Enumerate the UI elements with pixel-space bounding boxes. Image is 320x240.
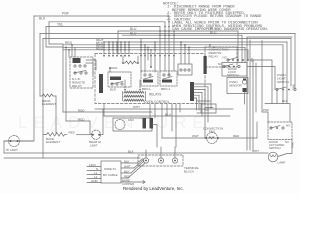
svg-text:PNP: PNP [263,108,269,112]
svg-text:BRO-L: BRO-L [142,87,152,91]
wire ladder from right connector [194,84,211,98]
connector strip left inside oven control [99,74,103,93]
svg-text:PNP: PNP [62,12,70,16]
connector pair [143,118,147,129]
wire WHT below oven control [95,108,233,110]
wire RED mid [63,111,152,113]
wire bus5 WHT [43,38,291,40]
relay 1 BLR dashed box [108,72,131,87]
svg-text:BLK: BLK [128,149,134,153]
svg-text:BLU: BLU [165,112,171,116]
wire YEL bus [46,26,160,28]
rear hi limit [91,130,100,139]
wire right mid pair [253,60,256,150]
svg-text:RED: RED [233,134,240,138]
svg-text:BLR: BLR [110,87,117,91]
wire rail x49 [49,22,63,44]
relay 3 dashed box [160,71,177,86]
svg-text:YEL: YEL [57,22,63,26]
wire right staircase [283,34,295,104]
svg-text:SENSOR: SENSOR [229,84,243,88]
svg-text:SWITCH: SWITCH [269,146,280,150]
svg-text:BRO-1: BRO-1 [161,87,171,91]
wire bus2 [49,21,165,23]
svg-text:BLK: BLK [124,160,130,164]
svg-text:WHT: WHT [192,134,199,138]
connector arrows row2 [140,55,175,57]
broil element [40,94,56,97]
wire right pair mid [247,60,275,104]
svg-text:NO: NO [218,62,223,66]
wire BLU bus2 [122,34,242,36]
wire RED bus1 [63,44,283,46]
door lock switch box [222,63,247,77]
svg-text:RELAY: RELAY [209,55,219,59]
convection fan [162,137,257,139]
svg-text:NO: NO [223,56,228,60]
lamp [268,152,278,162]
wire middle verticals down [150,104,180,147]
svg-text:RED: RED [96,47,104,51]
terminal block [138,155,183,166]
oven control dashed box [95,54,205,104]
svg-text:NC: NC [285,140,289,144]
coil zigzag top-left in oven control [123,61,138,64]
svg-text:NO: NO [286,123,291,127]
junction dots grid [103,41,105,43]
wire WHT bus [104,41,287,43]
notice text block [163,2,269,32]
wire rail x40 [39,34,41,97]
door actuated switch [268,122,292,140]
wire PNK top bus [34,15,169,17]
wire bottom long line WHT [4,152,268,154]
svg-text:PNK: PNK [291,142,295,148]
wire BLU bus1 [118,30,238,32]
svg-text:Rendered by LeadVenture, Inc.: Rendered by LeadVenture, Inc. [123,186,184,191]
svg-text:RED: RED [69,131,76,135]
hi limit switch [9,136,20,147]
svg-text:BLK: BLK [204,108,209,112]
convection remote relay box [205,47,237,67]
wire console box [247,37,292,150]
svg-text:BLU: BLU [130,27,137,31]
wire RED bus2 [63,46,245,48]
wire rail x43 [42,39,44,159]
wire bus4 [40,33,295,35]
wire drops group3 [160,16,174,75]
svg-text:BLOCK: BLOCK [184,170,194,174]
svg-text:WHT: WHT [133,105,140,109]
wire RED lower [66,121,90,134]
small box BLK below oven control right [197,101,217,113]
BX right wires [121,163,140,182]
wire drops into oven control top group1 [104,31,129,54]
svg-text:LIMIT: LIMIT [90,143,98,147]
svg-text:FAN: FAN [128,118,134,122]
small box Com top-right in oven control [178,64,192,75]
bake element [44,133,67,137]
svg-text:RELAY: RELAY [72,84,82,88]
wire bends right of DLB relay [86,60,96,75]
wire RED bus3 [63,49,248,51]
svg-text:BLU: BLU [130,32,137,36]
relay 2 dashed box [141,71,158,86]
transformer double zigzag [125,80,140,88]
svg-text:SWITCH: SWITCH [227,73,238,77]
svg-text:FAN: FAN [209,130,215,134]
connector strip conv relay [204,56,207,74]
wire BLK corner [265,104,290,123]
relay D.L.B. remote relay box [70,57,93,88]
connector strip right inside oven control [190,82,194,101]
wire drops group2 [141,39,155,73]
svg-text:BX CABLE: BX CABLE [103,173,118,177]
svg-text:LAMP: LAMP [278,160,286,164]
svg-text:WHT: WHT [124,165,131,169]
svg-text:CAN CAUSE IMPROPER AND DANGERO: CAN CAUSE IMPROPER AND DANGEROUS OPERATI… [172,28,269,32]
svg-text:ELEMENT: ELEMENT [46,140,60,144]
BX cable box [101,161,121,183]
svg-text:RED: RED [78,117,85,121]
wire bottom line 2 [4,157,140,159]
svg-text:HI LIMIT: HI LIMIT [6,148,18,152]
connector arrows [103,55,130,57]
oven sensor [227,78,248,94]
svg-text:BLK: BLK [39,16,46,20]
svg-text:WIRE IN: WIRE IN [104,167,116,171]
wire left rail x34 [4,16,34,153]
svg-text:RED: RED [78,108,85,112]
wire RED drop cluster left [63,45,75,121]
wire PNK drop [262,41,268,123]
wire rail x46 [46,27,63,48]
svg-text:ELEMENT: ELEMENT [42,102,56,106]
svg-text:OVEN CONTROL: OVEN CONTROL [144,100,170,104]
wire BLU mid [104,115,230,117]
svg-text:BLK: BLK [124,170,130,174]
cooling fan [113,118,152,131]
svg-text:RELAYS: RELAYS [149,93,161,97]
